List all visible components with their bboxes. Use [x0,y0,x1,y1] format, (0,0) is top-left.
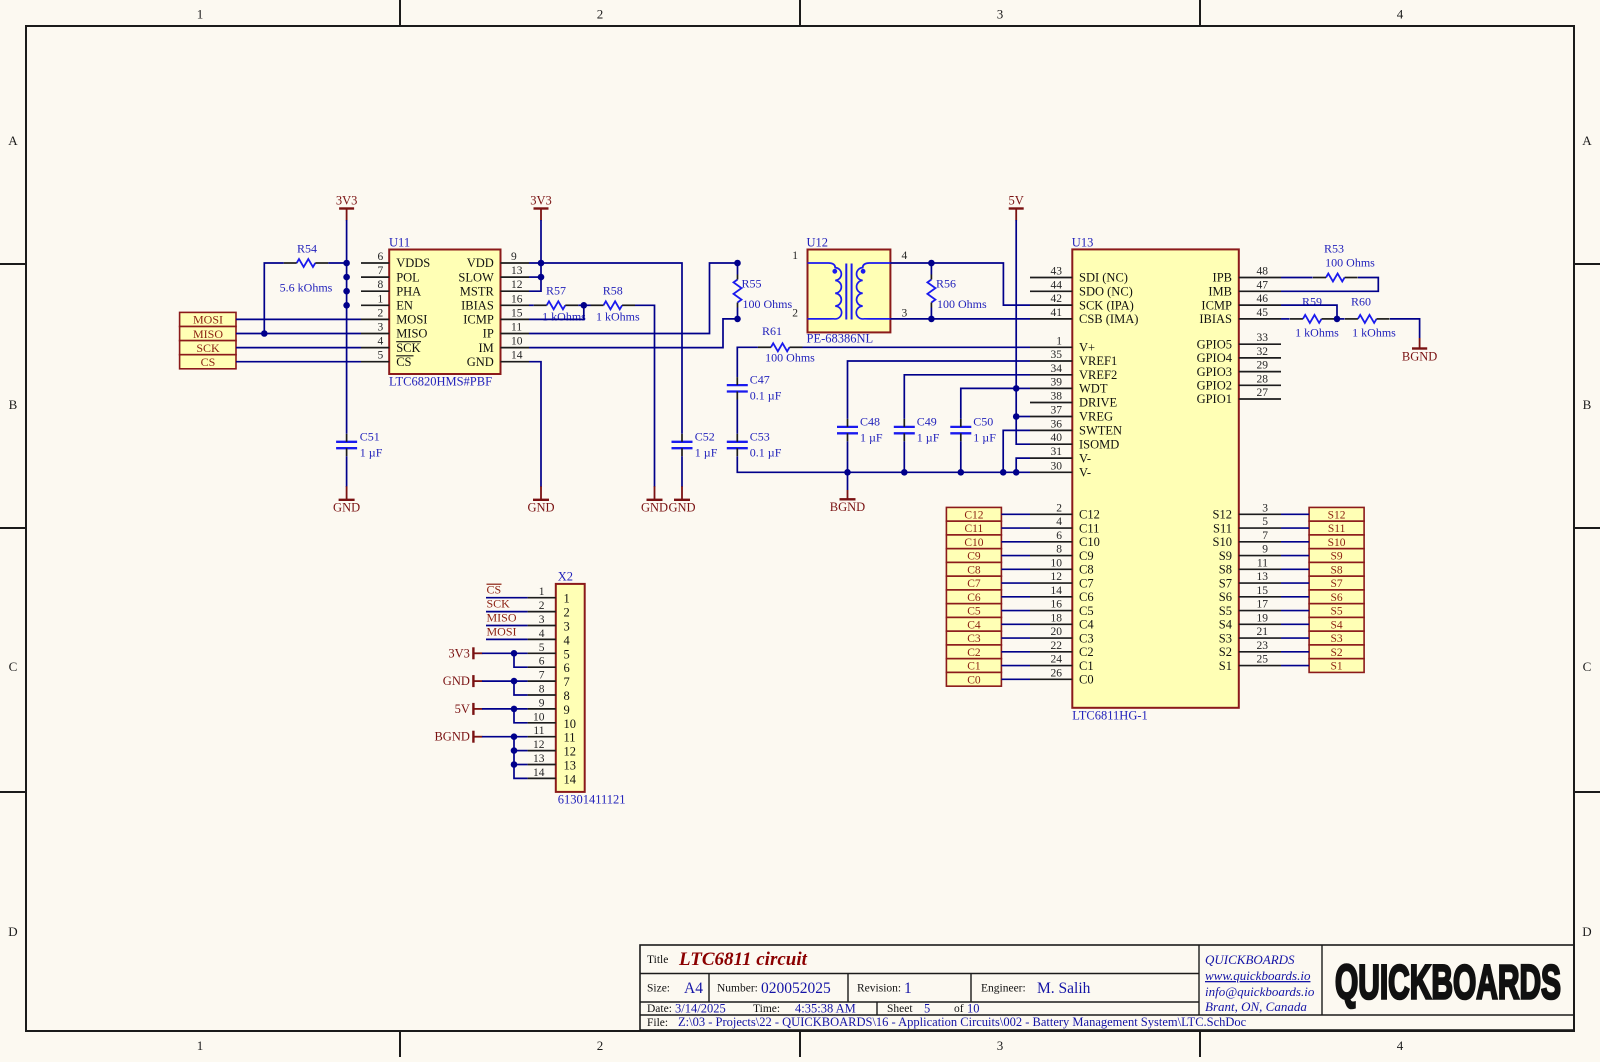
svg-text:100 Ohms: 100 Ohms [765,351,815,365]
wire IM pin10 to U12 pin2 [529,319,738,348]
power BGND (X2) [472,731,474,743]
svg-text:11: 11 [511,322,522,334]
svg-text:10: 10 [511,336,523,348]
resistor R53 [1313,241,1375,281]
svg-text:IMB: IMB [1208,285,1232,299]
svg-text:V-: V- [1079,466,1091,480]
wire IBIAS to R59 [1281,318,1290,320]
junction 3V3/X2 pin5 [511,650,518,657]
wire port C4 to U13 [1001,623,1030,625]
svg-text:S6: S6 [1219,590,1232,604]
svg-text:1: 1 [1056,335,1062,347]
svg-text:1 µF: 1 µF [917,430,940,444]
svg-text:7: 7 [377,265,383,277]
svg-text:1: 1 [197,1038,204,1053]
svg-text:SCK: SCK [487,597,511,611]
svg-text:D: D [1582,924,1591,939]
svg-text:41: 41 [1051,307,1063,319]
wire U13 to port S10 [1281,541,1309,543]
port S1 [1309,659,1364,673]
svg-text:MSTR: MSTR [460,284,495,298]
svg-text:POL: POL [396,270,420,284]
svg-text:IM: IM [479,341,494,355]
wire R61 left to C47 [737,347,758,377]
svg-text:10: 10 [533,711,545,723]
wire MISO port to U11 pin3 [236,333,361,335]
junction R57/R58 to ICMP [581,302,588,309]
power 5V (X2) [472,703,474,715]
wire CS to X2 pin1 [486,597,528,599]
wire R54 left to MISO [264,263,283,334]
svg-text:SCK: SCK [196,341,220,355]
svg-text:C10: C10 [964,537,983,549]
wire MISO to X2 pin3 [486,625,528,627]
wire R55 bottom [737,308,739,319]
junction 3V3/pin8 [343,288,350,295]
capacitor C51 [336,429,383,459]
port S5 [1309,604,1364,618]
svg-text:LTC6820HMS#PBF: LTC6820HMS#PBF [389,375,492,389]
svg-text:16: 16 [511,293,523,305]
svg-text:10: 10 [967,1002,980,1016]
svg-text:13: 13 [533,753,545,765]
svg-text:S4: S4 [1331,619,1343,631]
wire R56 top [930,263,932,275]
svg-text:22: 22 [1051,640,1063,652]
wire VDD pin9 to C52 [529,263,682,434]
port C7 [946,576,1001,590]
svg-text:3: 3 [997,1038,1004,1053]
wire C52 to GND [681,456,683,487]
svg-text:25: 25 [1257,654,1269,666]
svg-text:QUICKBOARDS: QUICKBOARDS [1205,952,1295,967]
junction 3V3/pin1 EN [343,302,350,309]
svg-text:EN: EN [396,299,413,313]
svg-text:Z:\03 - Projects\22 - QUICKBOA: Z:\03 - Projects\22 - QUICKBOARDS\16 - A… [678,1015,1247,1029]
port C2 [946,645,1001,659]
svg-text:11: 11 [564,731,576,745]
wire SCK to X2 pin2 [486,611,528,613]
svg-text:15: 15 [1257,585,1269,597]
svg-text:45: 45 [1257,307,1269,319]
svg-text:9: 9 [539,697,545,709]
wire R57 to R58 [578,304,590,306]
port C10 [946,535,1001,549]
resistor R61 [758,324,815,365]
svg-text:24: 24 [1051,654,1063,666]
svg-text:S12: S12 [1328,509,1346,521]
svg-text:PHA: PHA [396,284,421,298]
svg-text:4: 4 [1056,516,1062,528]
resistor R54 [280,242,333,295]
wire C48 bottom to BGND rail [847,441,849,472]
svg-text:3V3: 3V3 [336,194,358,208]
svg-text:B: B [9,397,18,412]
svg-text:61301411121: 61301411121 [558,792,626,806]
wire IBIAS to R57 [529,304,534,306]
svg-text:C51: C51 [360,429,380,443]
svg-text:2: 2 [597,1038,604,1053]
svg-text:S3: S3 [1219,631,1232,645]
svg-text:Revision:: Revision: [857,983,901,995]
wire R54 right to 3V3 rail [328,262,346,264]
svg-text:C47: C47 [750,373,770,387]
svg-text:40: 40 [1051,432,1063,444]
svg-text:VDD: VDD [467,256,494,270]
svg-text:MISO: MISO [396,327,427,341]
power 5V [1009,207,1024,209]
resistor R59 [1290,295,1339,340]
wire R60 to BGND [1390,319,1420,338]
svg-text:0.1 µF: 0.1 µF [750,389,782,403]
svg-text:C: C [9,659,18,674]
wire C53 to BGND rail [737,456,1030,472]
wire port C11 to U13 [1001,527,1030,529]
svg-text:R56: R56 [936,277,956,291]
svg-text:WDT: WDT [1079,382,1108,396]
svg-text:32: 32 [1257,346,1269,358]
svg-text:Sheet: Sheet [887,1003,913,1015]
svg-text:4: 4 [539,628,545,640]
svg-text:1 µF: 1 µF [695,445,718,459]
svg-text:C0: C0 [1079,673,1094,687]
svg-text:26: 26 [1051,667,1063,679]
svg-text:U11: U11 [389,236,410,250]
capacitor C52 [672,429,718,459]
svg-text:3: 3 [539,614,545,626]
svg-text:CS: CS [396,355,411,369]
svg-text:C3: C3 [1079,631,1094,645]
svg-text:S6: S6 [1331,592,1343,604]
wire C48 top [848,361,1031,419]
svg-text:VREF2: VREF2 [1079,368,1117,382]
port S6 [1309,590,1364,604]
port SCK [180,341,236,355]
junction C49/BGND rail [901,469,908,476]
wire IP pin11 to U12 pin1 [529,263,738,334]
junction SWTEN/BGND rail [1000,469,1007,476]
svg-text:7: 7 [1262,530,1268,542]
svg-text:10: 10 [1051,557,1063,569]
svg-text:V-: V- [1079,451,1091,465]
svg-text:11: 11 [1257,557,1268,569]
svg-text:13: 13 [1257,571,1269,583]
wire R56 bottom [930,308,932,319]
svg-text:1: 1 [377,293,383,305]
wire 5V to X2 pins 9,10 [482,708,528,710]
svg-text:R55: R55 [742,277,762,291]
svg-text:1 kOhms: 1 kOhms [1295,325,1339,339]
capacitor C47 [727,373,782,403]
junction C48/BGND rail [844,469,851,476]
wire U13 to port S2 [1281,651,1309,653]
svg-text:S1: S1 [1331,661,1343,673]
port S2 [1309,645,1364,659]
svg-text:020052025: 020052025 [761,980,831,997]
wire junction down to ICMP pin15 [529,305,584,319]
svg-text:1 kOhms: 1 kOhms [542,309,586,323]
junction BGND/X2 pin12 [511,747,518,754]
port C9 [946,549,1001,563]
svg-text:GND: GND [641,500,668,514]
svg-text:12: 12 [564,745,577,759]
junction 5V/WDT [1013,385,1020,392]
svg-text:6: 6 [564,661,570,675]
svg-text:MISO: MISO [193,327,223,341]
svg-text:4: 4 [1397,1038,1404,1053]
svg-text:1 µF: 1 µF [360,445,383,459]
wire port C12 to U13 [1001,513,1030,515]
svg-text:1: 1 [564,592,570,606]
port S9 [1309,549,1364,563]
svg-text:44: 44 [1051,279,1063,291]
company info box [1205,952,1315,1014]
svg-text:C8: C8 [967,564,981,576]
svg-text:R57: R57 [546,283,566,297]
svg-text:C5: C5 [967,606,981,618]
svg-text:info@quickboards.io: info@quickboards.io [1205,984,1315,999]
svg-text:S9: S9 [1331,551,1343,563]
svg-text:PE-68386NL: PE-68386NL [807,332,874,346]
svg-text:1: 1 [539,586,545,598]
junction 3V3/SLOW pin13 [538,274,545,281]
svg-text:2: 2 [564,606,570,620]
port S8 [1309,562,1364,576]
svg-text:S8: S8 [1331,564,1343,576]
wire port C7 to U13 [1001,582,1030,584]
svg-text:C1: C1 [967,661,981,673]
wire 3V3 to X2 pins 5,6 [482,652,528,654]
file row [647,1015,1247,1029]
svg-text:13: 13 [564,759,577,773]
svg-text:C10: C10 [1079,535,1100,549]
svg-text:S2: S2 [1219,645,1232,659]
svg-text:0.1 µF: 0.1 µF [750,445,782,459]
svg-text:5V: 5V [455,702,470,716]
wire U13 to port S6 [1281,596,1309,598]
wire port C8 to U13 [1001,568,1030,570]
wire port C1 to U13 [1001,665,1030,667]
svg-text:A: A [8,133,18,148]
svg-text:GND: GND [443,674,470,688]
svg-text:U13: U13 [1072,236,1094,250]
wire 3V3 rail down to C51 [346,220,348,434]
wire R58 to GND [635,305,655,487]
svg-text:C1: C1 [1079,659,1094,673]
svg-text:S9: S9 [1219,549,1232,563]
svg-text:13: 13 [511,265,523,277]
svg-text:3/14/2025: 3/14/2025 [675,1002,726,1016]
svg-text:www.quickboards.io: www.quickboards.io [1205,968,1311,983]
svg-text:5: 5 [564,647,570,661]
wire U13 to port S5 [1281,610,1309,612]
svg-text:DRIVE: DRIVE [1079,396,1118,410]
svg-text:C3: C3 [967,633,981,645]
svg-text:12: 12 [1051,571,1063,583]
svg-text:ISOMD: ISOMD [1079,437,1119,451]
ground BGND (R60) [1402,338,1437,363]
wire CS port to U11 pin5 [236,361,361,363]
svg-text:14: 14 [511,350,523,362]
svg-text:9: 9 [511,251,517,263]
svg-text:BGND: BGND [434,730,469,744]
power GND (X2) [472,675,474,687]
svg-text:Date:: Date: [647,1003,672,1015]
svg-text:3: 3 [997,7,1004,22]
svg-text:SCK (IPA): SCK (IPA) [1079,298,1134,312]
port C5 [946,604,1001,618]
port S3 [1309,631,1364,645]
svg-text:3: 3 [1262,502,1268,514]
wire BGND to X2 pins 11-14 [482,736,528,738]
svg-text:28: 28 [1257,373,1269,385]
svg-text:IP: IP [483,327,494,341]
svg-text:GPIO4: GPIO4 [1197,351,1233,365]
svg-text:5V: 5V [1009,194,1024,208]
svg-text:100 Ohms: 100 Ohms [1325,255,1375,269]
wire U13 to port S12 [1281,513,1309,515]
IC U11 LTC6820HMS#PBF [361,236,529,389]
svg-text:14: 14 [564,772,577,786]
svg-text:3V3: 3V3 [530,194,552,208]
svg-text:30: 30 [1051,460,1063,472]
svg-text:X2: X2 [558,569,573,583]
svg-text:A4: A4 [684,980,703,997]
junction 3V3/VDD pin9 [538,260,545,267]
wire SCK port to U11 pin4 [236,347,361,349]
svg-text:C50: C50 [973,414,993,428]
power 3V3 (U11 left rail) [339,207,354,209]
port C11 [946,521,1001,535]
svg-text:12: 12 [533,739,545,751]
resistor R60 [1345,295,1396,340]
svg-text:S12: S12 [1213,508,1232,522]
IC U13 LTC6811HG-1 [1030,236,1281,723]
svg-text:8: 8 [1056,544,1062,556]
svg-text:C9: C9 [967,551,981,563]
wire C47 to C53 [736,400,738,434]
svg-text:QUICKBOARDS: QUICKBOARDS [1335,957,1561,1010]
resistor R58 [591,283,640,323]
port MISO [180,327,236,341]
svg-text:C49: C49 [917,414,937,428]
port S11 [1309,521,1364,535]
transformer U12 PE-68386NL [792,236,907,346]
wire 3V3 to VDD/SLOW/MSTR [529,220,541,291]
port C4 [946,617,1001,631]
svg-text:2: 2 [377,307,383,319]
svg-text:ICMP: ICMP [1201,298,1232,312]
svg-text:8: 8 [377,279,383,291]
svg-text:7: 7 [539,670,545,682]
svg-text:GND: GND [668,500,695,514]
svg-text:4: 4 [902,250,908,262]
svg-text:17: 17 [1257,599,1269,611]
svg-text:C7: C7 [967,578,981,590]
wire U13 to port S7 [1281,582,1309,584]
svg-text:C4: C4 [967,619,981,631]
svg-text:14: 14 [1051,585,1063,597]
svg-text:SWTEN: SWTEN [1079,424,1122,438]
svg-text:48: 48 [1257,266,1269,278]
wire U13 to port S8 [1281,568,1309,570]
port C6 [946,590,1001,604]
svg-text:5: 5 [1262,516,1268,528]
junction 3V3/pin7 [343,274,350,281]
svg-text:S2: S2 [1331,647,1343,659]
junction C50/BGND rail [958,469,965,476]
svg-text:IBIAS: IBIAS [461,299,494,313]
svg-text:36: 36 [1051,418,1063,430]
svg-text:9: 9 [1262,544,1268,556]
svg-text:LTC6811HG-1: LTC6811HG-1 [1072,708,1147,722]
svg-text:C6: C6 [1079,590,1094,604]
title block [640,945,1574,1030]
svg-text:21: 21 [1257,626,1269,638]
svg-text:S1: S1 [1219,659,1232,673]
svg-text:S11: S11 [1328,523,1346,535]
wire U13 to port S9 [1281,555,1309,557]
svg-text:1: 1 [792,250,798,262]
svg-text:9: 9 [564,703,570,717]
svg-text:Number:: Number: [717,983,758,995]
port S12 [1309,507,1364,521]
wire SWTEN pin36 to BGND rail [1003,430,1030,472]
resistor R57 [534,283,586,323]
svg-text:GND: GND [527,500,554,514]
svg-text:11: 11 [533,725,544,737]
svg-text:C12: C12 [964,509,983,521]
junction U12 pin3 / R56 [928,316,935,323]
svg-text:A: A [1582,133,1592,148]
svg-text:C53: C53 [750,429,770,443]
svg-text:3: 3 [377,322,383,334]
svg-text:2: 2 [597,7,604,22]
svg-text:14: 14 [533,767,545,779]
svg-text:SDI (NC): SDI (NC) [1079,271,1128,285]
ground BGND (rail) [830,472,865,514]
junction 5V/X2 pin9 [511,706,518,713]
svg-text:S11: S11 [1213,521,1232,535]
svg-text:33: 33 [1257,332,1269,344]
capacitor C50 [950,414,996,444]
svg-text:IBIAS: IBIAS [1199,312,1232,326]
wire MOSI to X2 pin4 [486,638,528,640]
junction 5V/VREG [1013,413,1020,420]
svg-text:R59: R59 [1302,295,1322,309]
wire port C5 to U13 [1001,610,1030,612]
wire port C2 to U13 [1001,651,1030,653]
svg-text:19: 19 [1257,612,1269,624]
svg-text:GPIO5: GPIO5 [1197,337,1232,351]
port C3 [946,631,1001,645]
svg-text:IPB: IPB [1213,271,1232,285]
port S4 [1309,617,1364,631]
svg-text:R60: R60 [1351,295,1371,309]
svg-text:S10: S10 [1328,537,1346,549]
svg-text:29: 29 [1257,360,1269,372]
wire 5V rail down [1016,220,1030,444]
port CS [180,355,236,369]
svg-text:7: 7 [564,675,570,689]
svg-text:LTC6811 circuit: LTC6811 circuit [678,949,808,970]
svg-text:SLOW: SLOW [458,270,494,284]
net label CS (X2 pin1) [487,583,502,597]
port C1 [946,659,1001,673]
svg-text:S5: S5 [1331,606,1343,618]
svg-text:23: 23 [1257,640,1269,652]
svg-text:VREF1: VREF1 [1079,354,1117,368]
